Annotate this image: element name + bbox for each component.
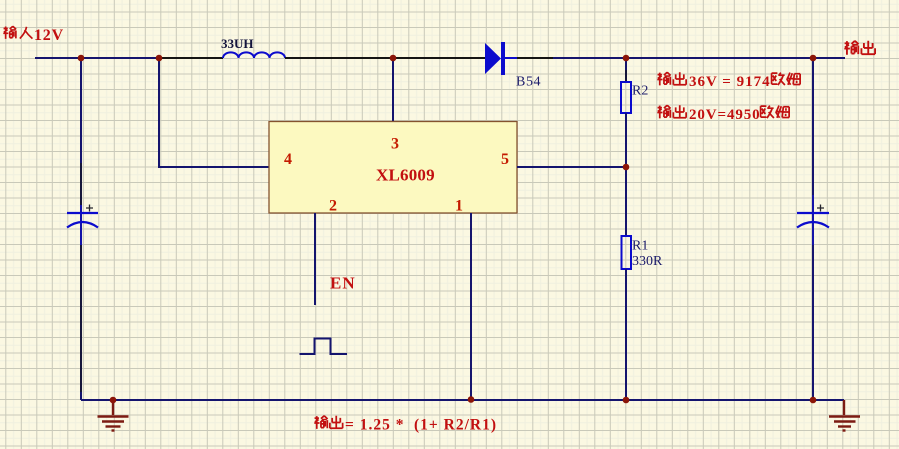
resistor R1 <box>622 236 632 269</box>
part name XL6009 <box>376 166 435 185</box>
value label B54 <box>516 75 541 90</box>
wire left input branch vertical (dark mid) <box>80 163 82 205</box>
wire right output branch vertical (cap lead) <box>812 195 814 245</box>
wire left corner to bus <box>80 392 82 400</box>
wire left input branch vertical (cap lead) <box>80 205 82 245</box>
plus sign of C1 <box>86 205 93 212</box>
wire right output branch vertical (upper) <box>812 58 814 195</box>
label R2 <box>632 84 648 99</box>
wire top rail segment E (to output) <box>553 57 845 59</box>
inductor L1 <box>223 52 285 58</box>
wire divider top (junction to R2 upper) <box>625 58 627 70</box>
wire top rail segment C (black, inductor to diode) <box>285 57 485 59</box>
wire divider middle (R2 to R1) <box>625 113 627 236</box>
wire pin4 branch (vertical + horizontal into IC) <box>159 58 269 167</box>
label R1 <box>632 239 648 254</box>
junction node dot (left ground) <box>110 397 117 404</box>
capacitor C2 (right, polarized) <box>797 213 829 228</box>
wire ground bus bottom <box>81 399 844 401</box>
svg-text:R2: R2 <box>632 84 648 99</box>
junction node dot (right cap to bus) <box>810 397 817 404</box>
wire pin1 vertical <box>470 213 472 400</box>
capacitor C1 (left, polarized) <box>67 213 98 228</box>
svg-text:(1+ R2/R1): (1+ R2/R1) <box>414 417 497 434</box>
annotation line 1: 输出36V = 9174欧姆 <box>657 72 686 85</box>
svg-text:20V=4950: 20V=4950 <box>689 107 761 123</box>
diode D1 <box>485 42 517 75</box>
svg-text:1: 1 <box>455 198 463 215</box>
svg-text:36V = 9174: 36V = 9174 <box>689 74 771 90</box>
svg-text:4: 4 <box>284 151 292 168</box>
wire pin3 vertical <box>392 58 394 122</box>
wire top rail segment B (black, into inductor) <box>160 57 223 59</box>
pin number 4 <box>284 151 292 168</box>
net label 输入12V (input 12V) <box>3 26 32 39</box>
junction node dot (feedback node pin5) <box>623 164 630 171</box>
wire left input branch vertical (upper) <box>80 58 82 163</box>
wire right output branch vertical (lower) <box>812 245 814 400</box>
svg-text:XL6009: XL6009 <box>376 166 435 185</box>
junction node dot (pin4 tap) <box>156 55 163 62</box>
plus sign of C2 <box>817 205 824 212</box>
pin number 5 <box>501 151 509 168</box>
annotation formula: 输出= 1.25 * （1+ R2/R1） <box>314 416 342 429</box>
value label 33UH <box>221 36 254 51</box>
ground symbol left <box>98 400 129 431</box>
svg-text:B54: B54 <box>516 75 541 90</box>
annotation line 2: 输出20V=4950欧姆 <box>657 105 686 118</box>
svg-text:330R: 330R <box>632 254 663 269</box>
svg-text:3: 3 <box>391 136 399 153</box>
label EN <box>330 274 356 293</box>
junction node dot (divider to bus) <box>623 397 630 404</box>
pin number 1 <box>455 198 463 215</box>
wire divider top (R2 lead) <box>625 70 627 82</box>
pulse waveform symbol <box>300 339 348 355</box>
junction node dot (R2 top tap) <box>623 55 630 62</box>
svg-text:5: 5 <box>501 151 509 168</box>
junction node dot (output cap tap) <box>810 55 817 62</box>
pin number 2 <box>329 198 337 215</box>
svg-text:= 1.25 *: = 1.25 * <box>345 417 404 434</box>
svg-text:12V: 12V <box>34 27 64 44</box>
junction node dot (pin3 tap) <box>390 55 397 62</box>
svg-text:33UH: 33UH <box>221 36 254 51</box>
ground symbol right <box>829 400 860 431</box>
value label 330R <box>632 254 663 269</box>
wire top rail segment A (input to inductor) <box>35 57 160 59</box>
wire divider bottom (R1 to ground bus) <box>625 269 627 400</box>
wire pin5 horizontal <box>517 166 626 168</box>
wire top rail segment D (black after diode) <box>517 57 553 59</box>
wire pin2 stub <box>314 213 316 305</box>
IC U1 XL6009 body <box>269 122 517 214</box>
svg-text:R1: R1 <box>632 239 648 254</box>
resistor R2 <box>621 82 631 113</box>
pin number 3 <box>391 136 399 153</box>
wire left input branch vertical (lower) <box>80 245 82 392</box>
junction node dot (pin1 to bus) <box>468 396 475 403</box>
svg-text:2: 2 <box>329 198 337 215</box>
net label 输出 (output) top right <box>844 41 875 55</box>
junction node dot (input cap tap) <box>78 55 85 62</box>
svg-text:EN: EN <box>330 274 356 293</box>
